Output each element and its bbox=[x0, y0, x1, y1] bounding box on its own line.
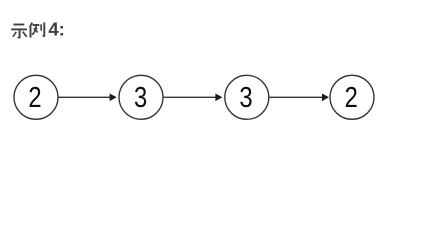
svg-text:2: 2 bbox=[345, 81, 358, 114]
svg-text:3: 3 bbox=[134, 81, 147, 114]
svg-text:4:: 4: bbox=[48, 18, 64, 39]
svg-text:2: 2 bbox=[28, 81, 41, 114]
svg-text:3: 3 bbox=[239, 81, 252, 114]
